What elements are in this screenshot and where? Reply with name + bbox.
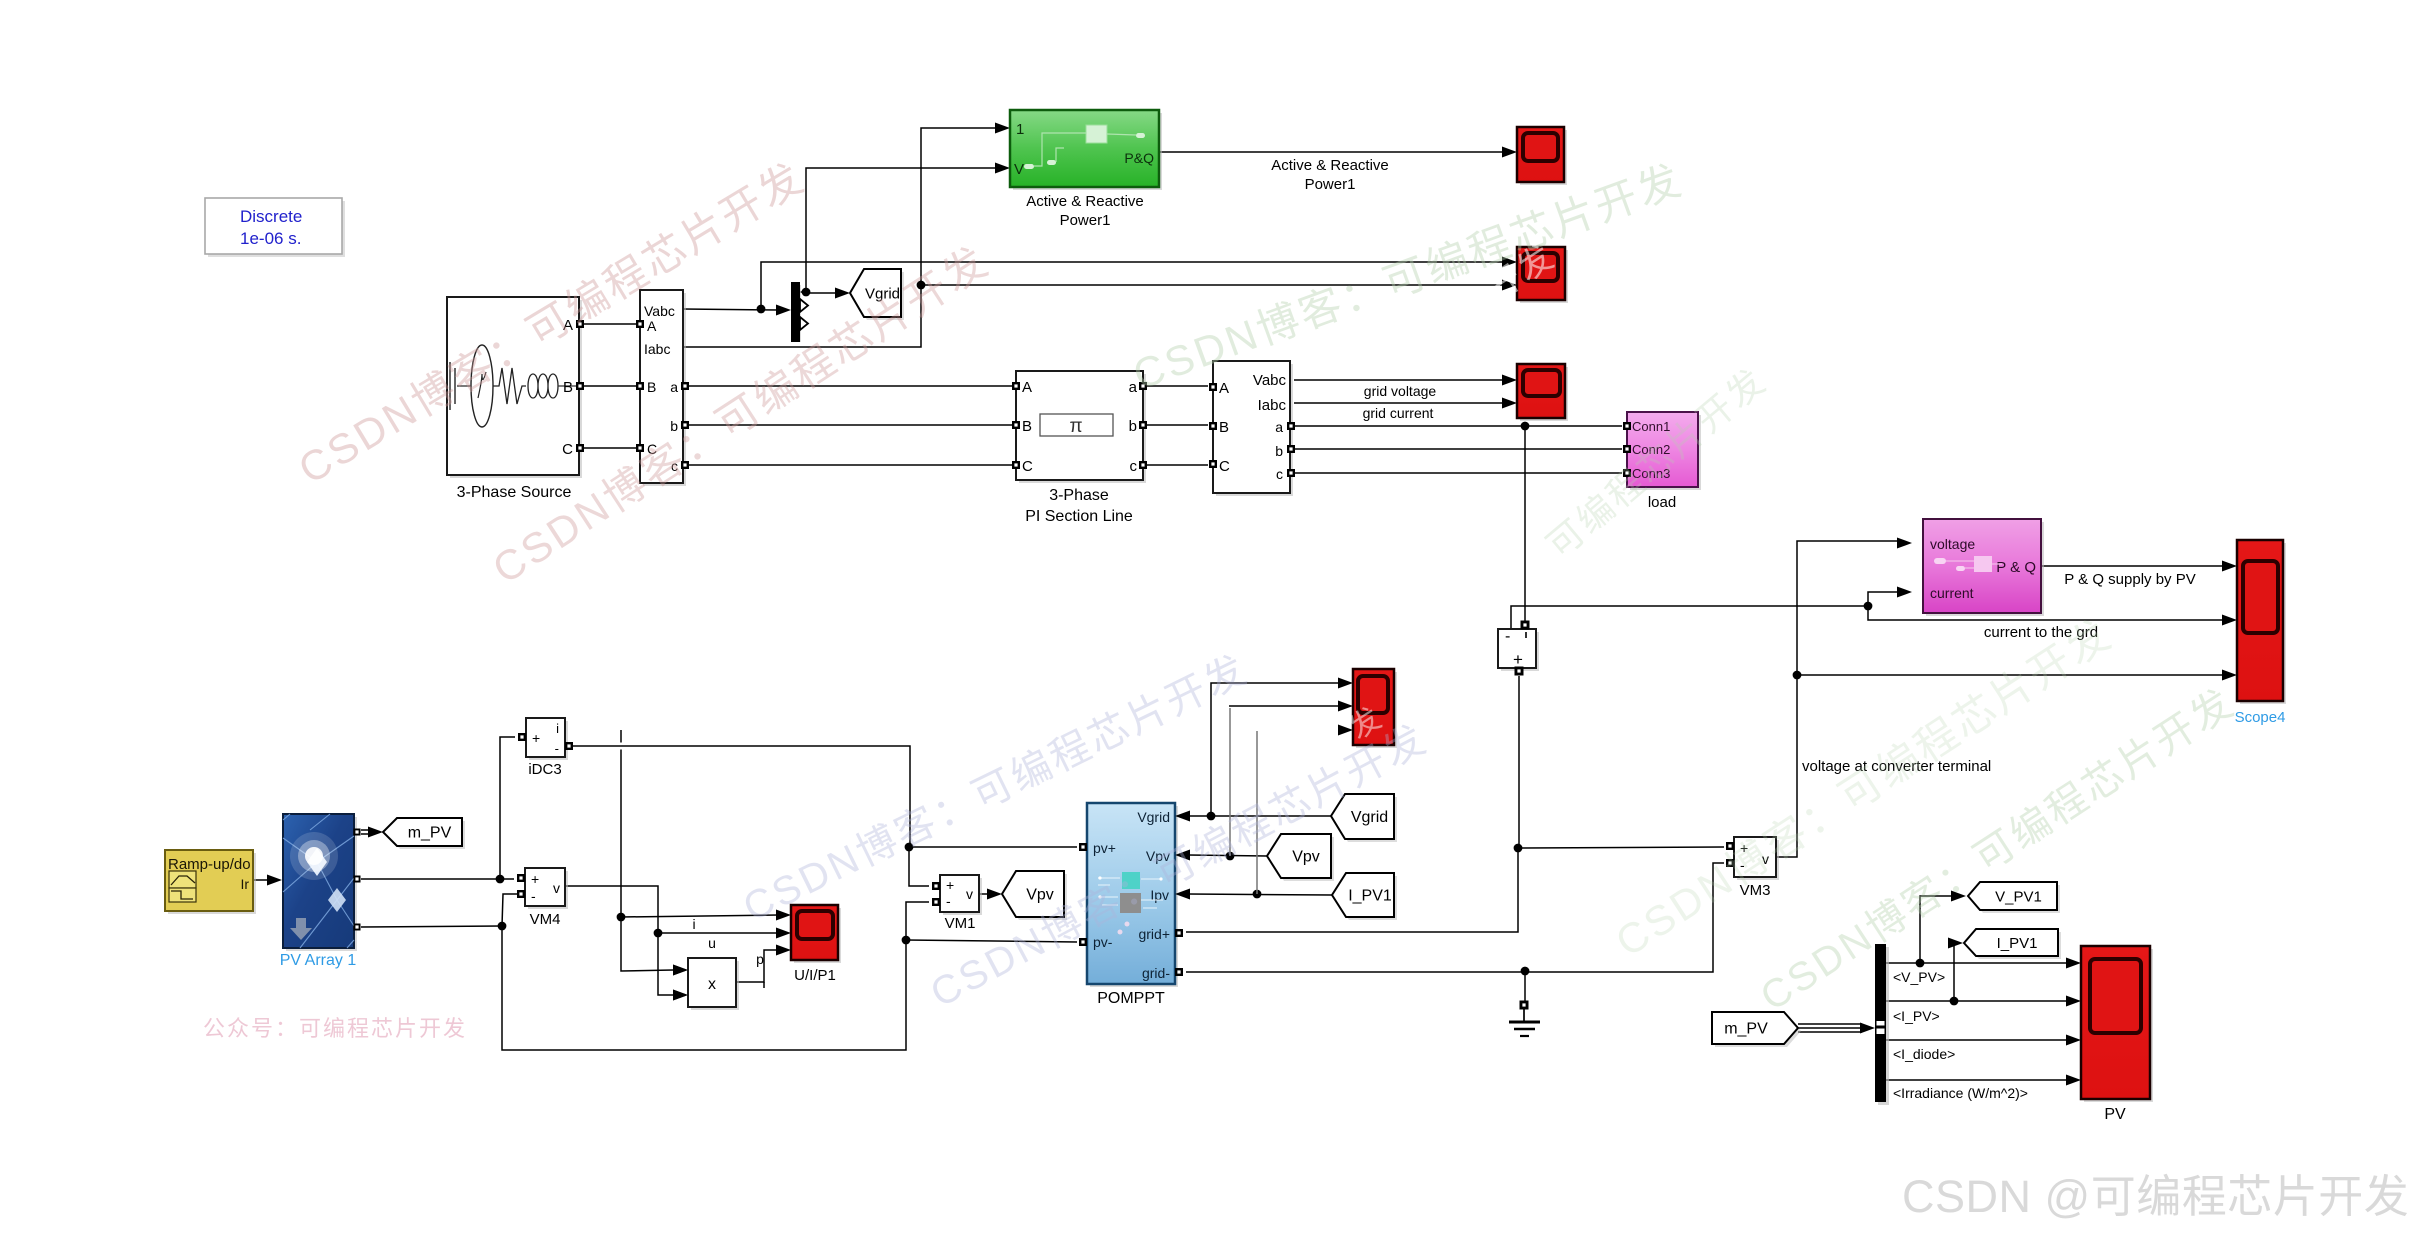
svg-text:grid current: grid current bbox=[1363, 405, 1434, 421]
svg-text:VM1: VM1 bbox=[945, 915, 976, 932]
svg-text:+: + bbox=[1513, 650, 1523, 669]
svg-text:<I_diode>: <I_diode> bbox=[1893, 1046, 1955, 1062]
svg-text:U/I/P1: U/I/P1 bbox=[794, 967, 836, 984]
svg-text:v: v bbox=[553, 880, 560, 896]
svg-text:A: A bbox=[1219, 380, 1229, 397]
svg-text:Vabc: Vabc bbox=[1253, 372, 1287, 389]
svg-text:-: - bbox=[1505, 628, 1510, 645]
svg-text:3-Phase Source: 3-Phase Source bbox=[457, 484, 572, 501]
svg-text:Iabc: Iabc bbox=[644, 341, 670, 357]
svg-text:Ir: Ir bbox=[240, 876, 249, 892]
svg-text:-: - bbox=[555, 741, 559, 756]
svg-text:+: + bbox=[531, 871, 539, 887]
svg-text:C: C bbox=[1022, 458, 1033, 475]
svg-text:i: i bbox=[692, 916, 695, 932]
svg-text:PI Section Line: PI Section Line bbox=[1025, 508, 1133, 525]
svg-text:POMPPT: POMPPT bbox=[1097, 990, 1165, 1007]
svg-text:grid-: grid- bbox=[1142, 965, 1170, 981]
svg-text:+: + bbox=[946, 877, 954, 893]
svg-text:Iabc: Iabc bbox=[1258, 397, 1287, 414]
svg-text:1: 1 bbox=[1016, 121, 1024, 138]
svg-text:Scope4: Scope4 bbox=[2235, 709, 2286, 726]
svg-text:grid+: grid+ bbox=[1138, 926, 1170, 942]
svg-text:i: i bbox=[556, 721, 559, 736]
svg-text:3-Phase: 3-Phase bbox=[1049, 487, 1109, 504]
svg-text:u: u bbox=[708, 935, 716, 951]
svg-text:A: A bbox=[647, 318, 657, 334]
svg-text:b: b bbox=[1275, 443, 1283, 459]
svg-text:B: B bbox=[647, 379, 656, 395]
svg-text:<V_PV>: <V_PV> bbox=[1893, 969, 1945, 985]
svg-text:V: V bbox=[1014, 161, 1024, 178]
svg-text:PV Array 1: PV Array 1 bbox=[280, 952, 357, 969]
svg-text:pv+: pv+ bbox=[1093, 840, 1116, 856]
svg-text:pv-: pv- bbox=[1093, 934, 1113, 950]
svg-text:voltage: voltage bbox=[1930, 536, 1975, 552]
svg-text:公众号：可编程芯片开发: 公众号：可编程芯片开发 bbox=[203, 1016, 467, 1041]
svg-text:B: B bbox=[563, 379, 573, 396]
svg-text:+: + bbox=[532, 730, 540, 746]
svg-text:Power1: Power1 bbox=[1305, 176, 1356, 193]
svg-text:CSDN @可编程芯片开发: CSDN @可编程芯片开发 bbox=[1902, 1171, 2409, 1222]
svg-text:x: x bbox=[708, 976, 716, 993]
svg-text:v: v bbox=[966, 886, 973, 902]
svg-text:P & Q supply by PV: P & Q supply by PV bbox=[2064, 571, 2195, 588]
svg-text:Vgrid: Vgrid bbox=[1137, 809, 1170, 825]
svg-text:a: a bbox=[670, 379, 678, 395]
svg-text:P & Q: P & Q bbox=[1996, 559, 2036, 576]
svg-text:I_PV1: I_PV1 bbox=[1348, 888, 1392, 905]
svg-text:1e-06 s.: 1e-06 s. bbox=[240, 229, 301, 248]
svg-text:Vpv: Vpv bbox=[1292, 849, 1320, 866]
svg-text:A: A bbox=[1022, 379, 1032, 396]
svg-text:current: current bbox=[1930, 585, 1974, 601]
svg-text:-: - bbox=[531, 888, 536, 904]
svg-text:C: C bbox=[562, 441, 573, 458]
svg-text:m_PV: m_PV bbox=[408, 825, 452, 842]
svg-text:Vabc: Vabc bbox=[644, 303, 675, 319]
svg-text:iDC3: iDC3 bbox=[528, 761, 561, 778]
svg-text:VM4: VM4 bbox=[530, 911, 561, 928]
svg-text:Discrete: Discrete bbox=[240, 207, 302, 226]
svg-text:p: p bbox=[756, 951, 764, 967]
svg-text:B: B bbox=[1219, 419, 1229, 436]
svg-text:Active & Reactive: Active & Reactive bbox=[1026, 193, 1144, 210]
svg-text:I_PV1: I_PV1 bbox=[1997, 935, 2038, 952]
svg-text:P&Q: P&Q bbox=[1124, 150, 1154, 166]
svg-text:Vgrid: Vgrid bbox=[1351, 809, 1388, 826]
svg-text:<I_PV>: <I_PV> bbox=[1893, 1008, 1940, 1024]
svg-text:C: C bbox=[1219, 458, 1230, 475]
svg-text:b: b bbox=[1129, 418, 1137, 435]
svg-text:a: a bbox=[1275, 419, 1283, 435]
svg-text:Vpv: Vpv bbox=[1026, 887, 1054, 904]
svg-text:m_PV: m_PV bbox=[1724, 1021, 1768, 1038]
svg-text:PV: PV bbox=[2104, 1106, 2126, 1123]
svg-text:π: π bbox=[1069, 416, 1082, 437]
svg-text:c: c bbox=[1276, 466, 1283, 482]
svg-text:load: load bbox=[1648, 494, 1676, 511]
svg-text:Active & Reactive: Active & Reactive bbox=[1271, 157, 1389, 174]
svg-text:V_PV1: V_PV1 bbox=[1995, 889, 2042, 906]
svg-text:-: - bbox=[946, 893, 951, 909]
svg-text:grid voltage: grid voltage bbox=[1364, 383, 1437, 399]
svg-text:Power1: Power1 bbox=[1060, 212, 1111, 229]
svg-text:<Irradiance (W/m^2)>: <Irradiance (W/m^2)> bbox=[1893, 1085, 2028, 1101]
svg-text:B: B bbox=[1022, 418, 1032, 435]
svg-text:c: c bbox=[1130, 458, 1138, 475]
